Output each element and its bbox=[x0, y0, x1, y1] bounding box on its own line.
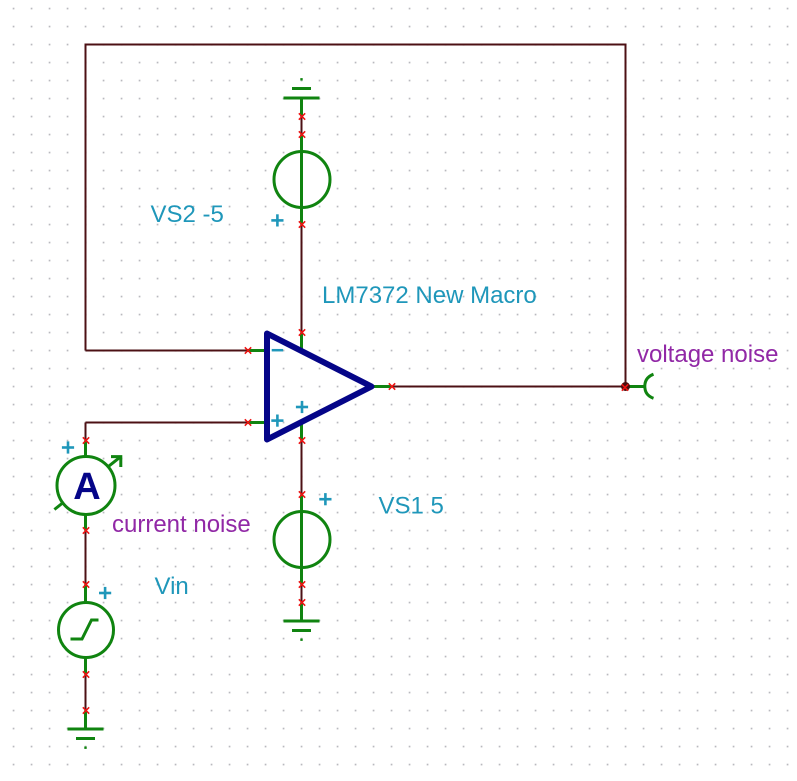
svg-text:A: A bbox=[73, 466, 100, 508]
svg-text:current noise: current noise bbox=[112, 511, 251, 538]
svg-text:VS2 -5: VS2 -5 bbox=[151, 201, 224, 228]
svg-text:LM7372 New Macro: LM7372 New Macro bbox=[322, 282, 537, 309]
svg-text:Vin: Vin bbox=[155, 573, 189, 600]
svg-text:voltage noise: voltage noise bbox=[637, 341, 778, 368]
svg-text:VS1 5: VS1 5 bbox=[379, 493, 444, 520]
